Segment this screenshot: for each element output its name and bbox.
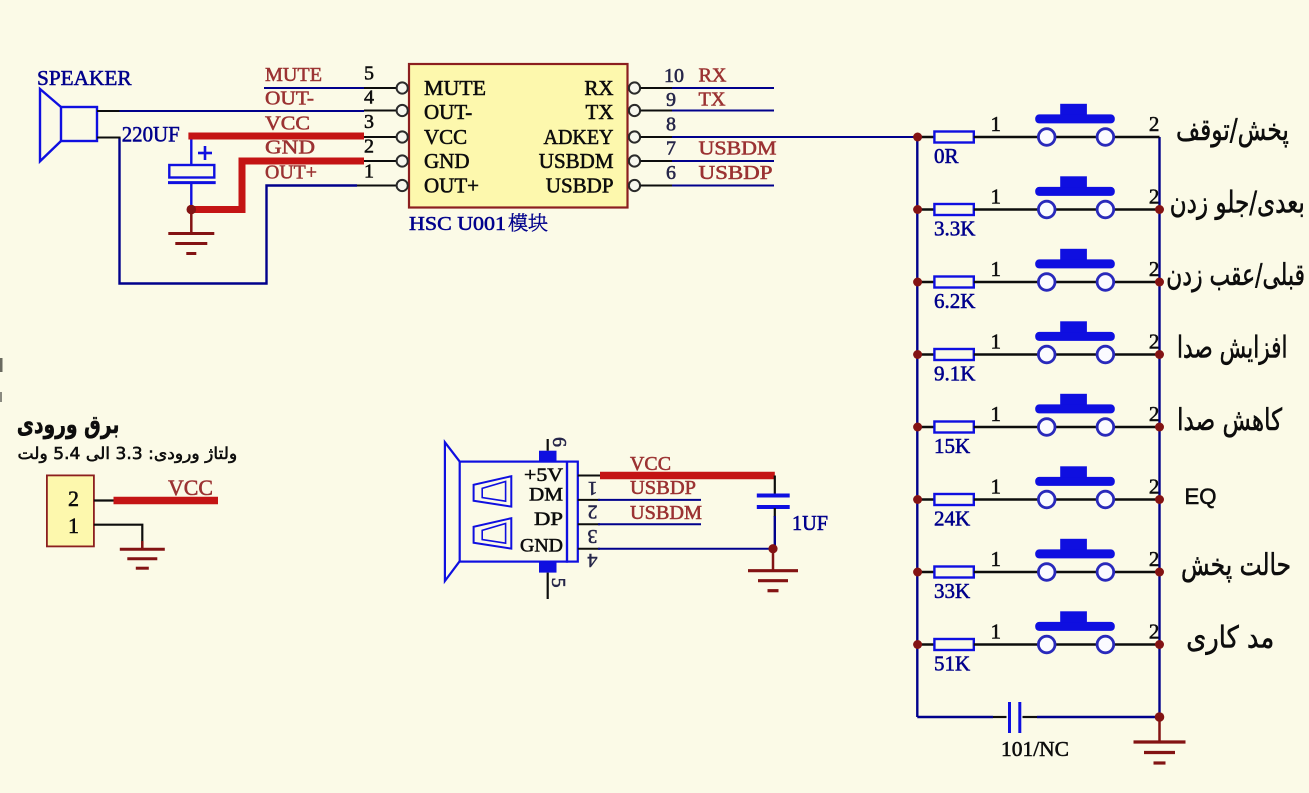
left bus wire [916, 137, 918, 717]
svg-text:MUTE: MUTE [424, 76, 486, 100]
svg-text:GND: GND [424, 149, 470, 173]
svg-text:220UF: 220UF [122, 122, 180, 147]
svg-text:DP: DP [534, 509, 563, 530]
svg-text:2: 2 [1149, 620, 1160, 644]
usb contact 2 [474, 518, 512, 548]
svg-text:1: 1 [588, 477, 598, 499]
svg-text:6: 6 [666, 162, 676, 184]
usb contact 1 [474, 476, 512, 506]
junction bottom right [1155, 712, 1165, 722]
junction dots row1 [913, 133, 922, 142]
push button S4 [1056, 353, 1096, 355]
usb shield pin6 [539, 451, 557, 462]
svg-text:1: 1 [991, 547, 1002, 571]
wire pin2 VCC [94, 499, 115, 501]
svg-text:3: 3 [588, 525, 598, 547]
resistor R7 33K [917, 571, 934, 573]
wire USBDM pin7 [641, 160, 673, 162]
svg-text:2: 2 [1149, 547, 1160, 571]
usb pin numbers 1-4 rotated [588, 477, 598, 499]
wire GND usb [578, 548, 600, 550]
junction dots row7 [913, 568, 922, 577]
svg-text:51K: 51K [934, 652, 970, 676]
svg-text:1: 1 [991, 257, 1002, 281]
svg-text:VCC: VCC [265, 113, 310, 135]
svg-text:6.2K: 6.2K [934, 289, 975, 313]
svg-text:VCC: VCC [168, 475, 213, 500]
svg-text:1UF: 1UF [792, 511, 828, 535]
svg-text:USBDP: USBDP [630, 477, 696, 499]
wire +5V/VCC [578, 475, 600, 477]
push button S3 [1056, 281, 1096, 283]
wire pin1 to ground [94, 525, 142, 549]
svg-text:33K: 33K [934, 579, 970, 603]
op IC U1 HSC U001 [409, 64, 628, 208]
junction cap/gnd [187, 205, 197, 215]
svg-text:7: 7 [666, 138, 676, 160]
svg-text:8: 8 [666, 114, 676, 136]
svg-text:2: 2 [1149, 257, 1160, 281]
svg-text:GND: GND [520, 536, 563, 557]
push button S8 [1056, 643, 1096, 645]
junction dots row8 [913, 640, 922, 649]
bottom wire [917, 716, 993, 718]
right bus wire [1158, 137, 1160, 717]
resistor R5 15K [917, 426, 934, 428]
svg-text:ADKEY: ADKEY [544, 125, 614, 149]
svg-text:4: 4 [588, 549, 598, 571]
capacitor C1 220UF [122, 122, 216, 210]
svg-text:USBDP: USBDP [546, 174, 614, 198]
svg-text:1: 1 [991, 330, 1002, 354]
net label row5 [1179, 407, 1282, 437]
svg-text:MUTE: MUTE [265, 64, 322, 86]
net label row3 [1168, 262, 1304, 292]
push button S1 [1056, 136, 1096, 138]
svg-text:2: 2 [1149, 402, 1160, 426]
capacitor C3 101/NC [1008, 702, 1011, 733]
resistor R4 9.1K [917, 353, 934, 355]
wire RX pin10 [641, 87, 673, 89]
connector P1 box [47, 475, 94, 546]
net label row2 [1171, 190, 1302, 220]
resistor R2 3.3K [917, 208, 934, 210]
svg-text:VCC: VCC [424, 125, 467, 149]
svg-text:OUT-: OUT- [424, 100, 472, 124]
net label row1 [1177, 118, 1288, 147]
svg-text:2: 2 [364, 136, 374, 158]
svg-text:RX: RX [584, 76, 613, 100]
wire GND (thick) [190, 161, 364, 210]
net label row7 [1182, 552, 1289, 582]
push button S5 [1056, 426, 1096, 428]
svg-text:EQ: EQ [1185, 484, 1217, 509]
svg-text:1: 1 [68, 513, 79, 538]
edge marks [0, 358, 3, 372]
push button S7 [1056, 571, 1096, 573]
junction dots row4 [913, 350, 922, 359]
pin circles left [397, 82, 408, 93]
svg-text:9: 9 [666, 89, 676, 111]
svg-text:USBDM: USBDM [699, 138, 777, 160]
ground G2 [1158, 717, 1161, 742]
junction dots row3 [913, 278, 922, 287]
capacitor C2 1UF [774, 476, 776, 495]
wire OUT- [97, 110, 121, 112]
svg-text:15K: 15K [934, 434, 970, 458]
wire DP/USBDM [578, 523, 600, 525]
svg-text:5: 5 [547, 578, 569, 588]
resistor R3 6.2K [917, 281, 934, 283]
svg-text:TX: TX [699, 89, 727, 111]
svg-text:1: 1 [991, 475, 1002, 499]
net label row8 [1188, 625, 1272, 655]
ground G4 [141, 541, 144, 549]
svg-text:VCC: VCC [630, 453, 671, 475]
resistor R1 0R [917, 136, 934, 138]
svg-text:2: 2 [1149, 330, 1160, 354]
svg-text:USBDP: USBDP [699, 162, 773, 184]
resistor R6 24K [917, 498, 934, 500]
junction dots row6 [913, 495, 922, 504]
wire DM/USBDP [578, 499, 600, 501]
svg-text:OUT+: OUT+ [265, 162, 317, 184]
svg-text:1: 1 [991, 620, 1002, 644]
junction dots row2 [913, 205, 922, 214]
USB connector J1 [445, 442, 578, 581]
junction dots row5 [913, 423, 922, 432]
input power label (barq vorudi) [18, 417, 118, 439]
svg-text:2: 2 [1149, 185, 1160, 209]
svg-text:2: 2 [588, 501, 598, 523]
junction usb gnd [768, 544, 777, 553]
svg-text:9.1K: 9.1K [934, 362, 975, 386]
ground G3 [772, 549, 775, 571]
speaker LS1 [37, 66, 132, 161]
wire ADKEY pin8 [641, 136, 673, 138]
svg-text:DM: DM [529, 485, 563, 506]
usb shield pin5 [539, 562, 557, 573]
svg-text:101/NC: 101/NC [1001, 737, 1069, 761]
svg-text:1: 1 [364, 161, 374, 183]
svg-text:5: 5 [364, 63, 374, 85]
svg-text:3: 3 [364, 111, 374, 133]
wire VCC (thick) [188, 133, 364, 140]
svg-text:GND: GND [265, 137, 315, 159]
push button S6 [1056, 498, 1096, 500]
svg-text:USBDM: USBDM [630, 502, 702, 524]
svg-text:1: 1 [991, 185, 1002, 209]
pin circles right [629, 82, 640, 93]
wire USBDP pin6 [641, 185, 673, 187]
svg-text:USBDM: USBDM [539, 149, 614, 173]
svg-text:TX: TX [586, 100, 614, 124]
svg-text:OUT-: OUT- [265, 88, 314, 110]
push button S2 [1056, 208, 1096, 210]
svg-text:2: 2 [68, 486, 79, 511]
svg-text:1: 1 [991, 112, 1002, 136]
svg-text:4: 4 [364, 87, 374, 109]
svg-text:10: 10 [664, 65, 684, 87]
svg-text:0R: 0R [934, 144, 959, 168]
svg-text:3.3K: 3.3K [934, 217, 975, 241]
resistor R8 51K [917, 643, 934, 645]
wire TX pin9 [641, 110, 673, 112]
svg-text:1: 1 [991, 402, 1002, 426]
svg-text:+5V: +5V [524, 465, 563, 486]
svg-text:6: 6 [548, 437, 570, 447]
svg-text:2: 2 [1149, 112, 1160, 136]
input voltage note [19, 446, 236, 463]
wire OUT+ [120, 138, 358, 284]
svg-text:RX: RX [699, 65, 728, 87]
svg-text:SPEAKER: SPEAKER [37, 66, 132, 90]
svg-text:24K: 24K [934, 507, 970, 531]
svg-text:OUT+: OUT+ [424, 174, 479, 198]
svg-text:HSC U001: HSC U001 [409, 213, 506, 235]
svg-text:2: 2 [1149, 475, 1160, 499]
ground G1 [190, 210, 193, 234]
net label row4 [1179, 335, 1285, 365]
